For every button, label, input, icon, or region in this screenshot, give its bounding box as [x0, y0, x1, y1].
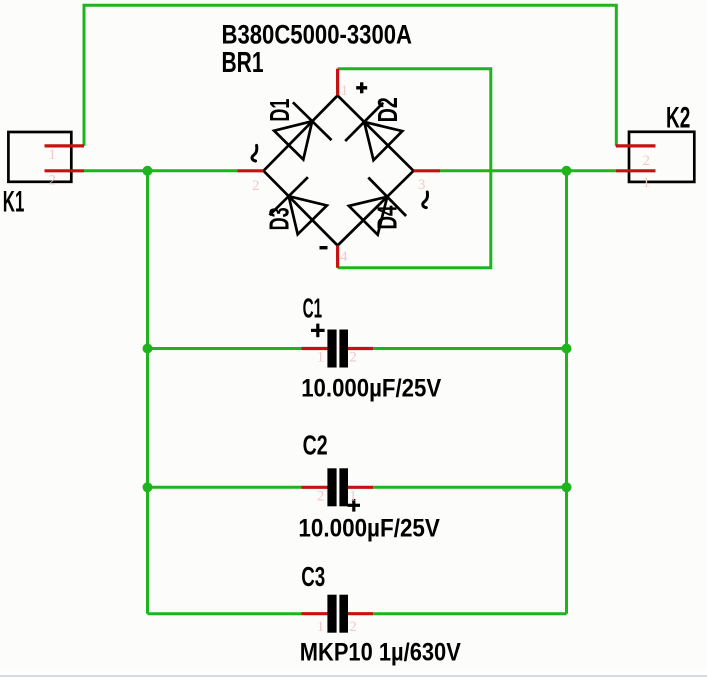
wire bridge + loop	[338, 69, 491, 268]
pin 2 of K2	[616, 144, 656, 147]
diamond side top-right	[338, 96, 414, 171]
svg-text:D3: D3	[264, 207, 295, 230]
capacitor C3	[300, 561, 461, 667]
svg-text:2: 2	[349, 619, 357, 635]
wire top bus K1 to K2	[84, 5, 616, 146]
pin 1 stub of C3	[302, 612, 328, 615]
pin 1 of K1	[45, 144, 85, 147]
plate left of C1	[327, 330, 336, 368]
svg-text:C2: C2	[303, 430, 328, 461]
wire C1 row left	[148, 347, 302, 350]
svg-text:D4: D4	[372, 205, 403, 229]
tilde mark at BR1 ac left	[252, 145, 257, 161]
capacitor C2	[298, 430, 440, 543]
wire C3 row left	[148, 612, 302, 615]
diamond side bottom-right	[338, 171, 414, 246]
svg-text:2: 2	[643, 153, 651, 169]
svg-text:1: 1	[49, 147, 57, 163]
pin ac left stub of BR1	[238, 169, 264, 172]
wire K1 pin2 to bridge AC1	[84, 169, 238, 172]
pin 2 stub of C3	[348, 612, 373, 615]
diode D4	[349, 197, 387, 235]
pin 1 stub of C1	[302, 347, 328, 350]
plate left of C2	[327, 468, 336, 506]
pin 1 stub of C2	[348, 486, 373, 489]
svg-text:10.000µF/25V: 10.000µF/25V	[301, 375, 441, 403]
svg-text:1: 1	[317, 619, 325, 635]
svg-text:C3: C3	[301, 561, 325, 592]
minus mark at BR1 - terminal	[320, 246, 328, 249]
svg-text:1: 1	[349, 489, 357, 505]
plate right of C2	[339, 468, 348, 506]
svg-text:K2: K2	[666, 102, 690, 135]
svg-text:BR1: BR1	[222, 47, 264, 79]
svg-text:1: 1	[317, 350, 325, 366]
svg-text:2: 2	[252, 178, 260, 194]
pin 2 of K1	[45, 169, 85, 172]
plus mark at BR1 + terminal	[356, 82, 367, 93]
pin - stub of BR1	[336, 246, 339, 268]
svg-text:MKP10 1µ/630V: MKP10 1µ/630V	[300, 639, 461, 667]
diode D3	[289, 196, 327, 234]
svg-text:D2: D2	[372, 97, 403, 122]
svg-text:2: 2	[317, 489, 325, 505]
pin 1 of K2	[616, 169, 656, 172]
svg-text:B380C5000-3300A: B380C5000-3300A	[222, 20, 413, 50]
pin 2 stub of C2	[302, 486, 328, 489]
svg-text:C1: C1	[303, 293, 323, 324]
wire bridge AC2 to K2 pin1	[440, 169, 616, 172]
junction node K1/C rail	[143, 166, 153, 176]
junction node C1 right	[562, 344, 572, 354]
diode D2	[364, 122, 402, 160]
svg-text:2: 2	[349, 350, 357, 366]
svg-text:2: 2	[49, 173, 57, 189]
diamond side left-top	[264, 96, 338, 171]
svg-text:4: 4	[340, 249, 348, 265]
capacitor C1	[301, 293, 441, 403]
svg-text:1: 1	[643, 175, 651, 191]
plus mark of C1	[311, 324, 325, 338]
connector K2	[616, 102, 695, 192]
diode D1	[274, 121, 312, 159]
diamond side bottom-left	[264, 171, 338, 246]
connector K1	[3, 132, 84, 219]
pin + stub of BR1	[336, 69, 339, 96]
wire C2 row left	[148, 486, 302, 489]
pin 2 stub of C1	[348, 347, 373, 350]
plate right of C1	[339, 330, 348, 368]
wire C3 row right	[373, 612, 566, 615]
junction node C1 left	[143, 344, 153, 354]
bridge rectifier BR1	[222, 20, 441, 268]
svg-text:K1: K1	[3, 186, 25, 219]
svg-text:1: 1	[341, 83, 349, 99]
plate left of C3	[327, 595, 336, 633]
junction node C2 right	[562, 482, 572, 492]
svg-text:3: 3	[418, 177, 426, 193]
junction node C2 left	[143, 482, 153, 492]
svg-text:D1: D1	[264, 99, 295, 122]
window bottom edge	[0, 672, 707, 681]
wire C2 row right	[373, 486, 566, 489]
wire C1 row right	[373, 347, 566, 350]
svg-text:10.000µF/25V: 10.000µF/25V	[298, 515, 440, 543]
junction node K2/C rail	[562, 166, 572, 176]
tilde mark at BR1 ac right	[423, 192, 428, 208]
pin ac right stub of BR1	[414, 169, 441, 172]
plate right of C3	[339, 595, 348, 633]
plus mark of C2	[348, 499, 361, 512]
wire right vertical rail	[565, 171, 568, 614]
wire left vertical rail	[146, 171, 149, 614]
